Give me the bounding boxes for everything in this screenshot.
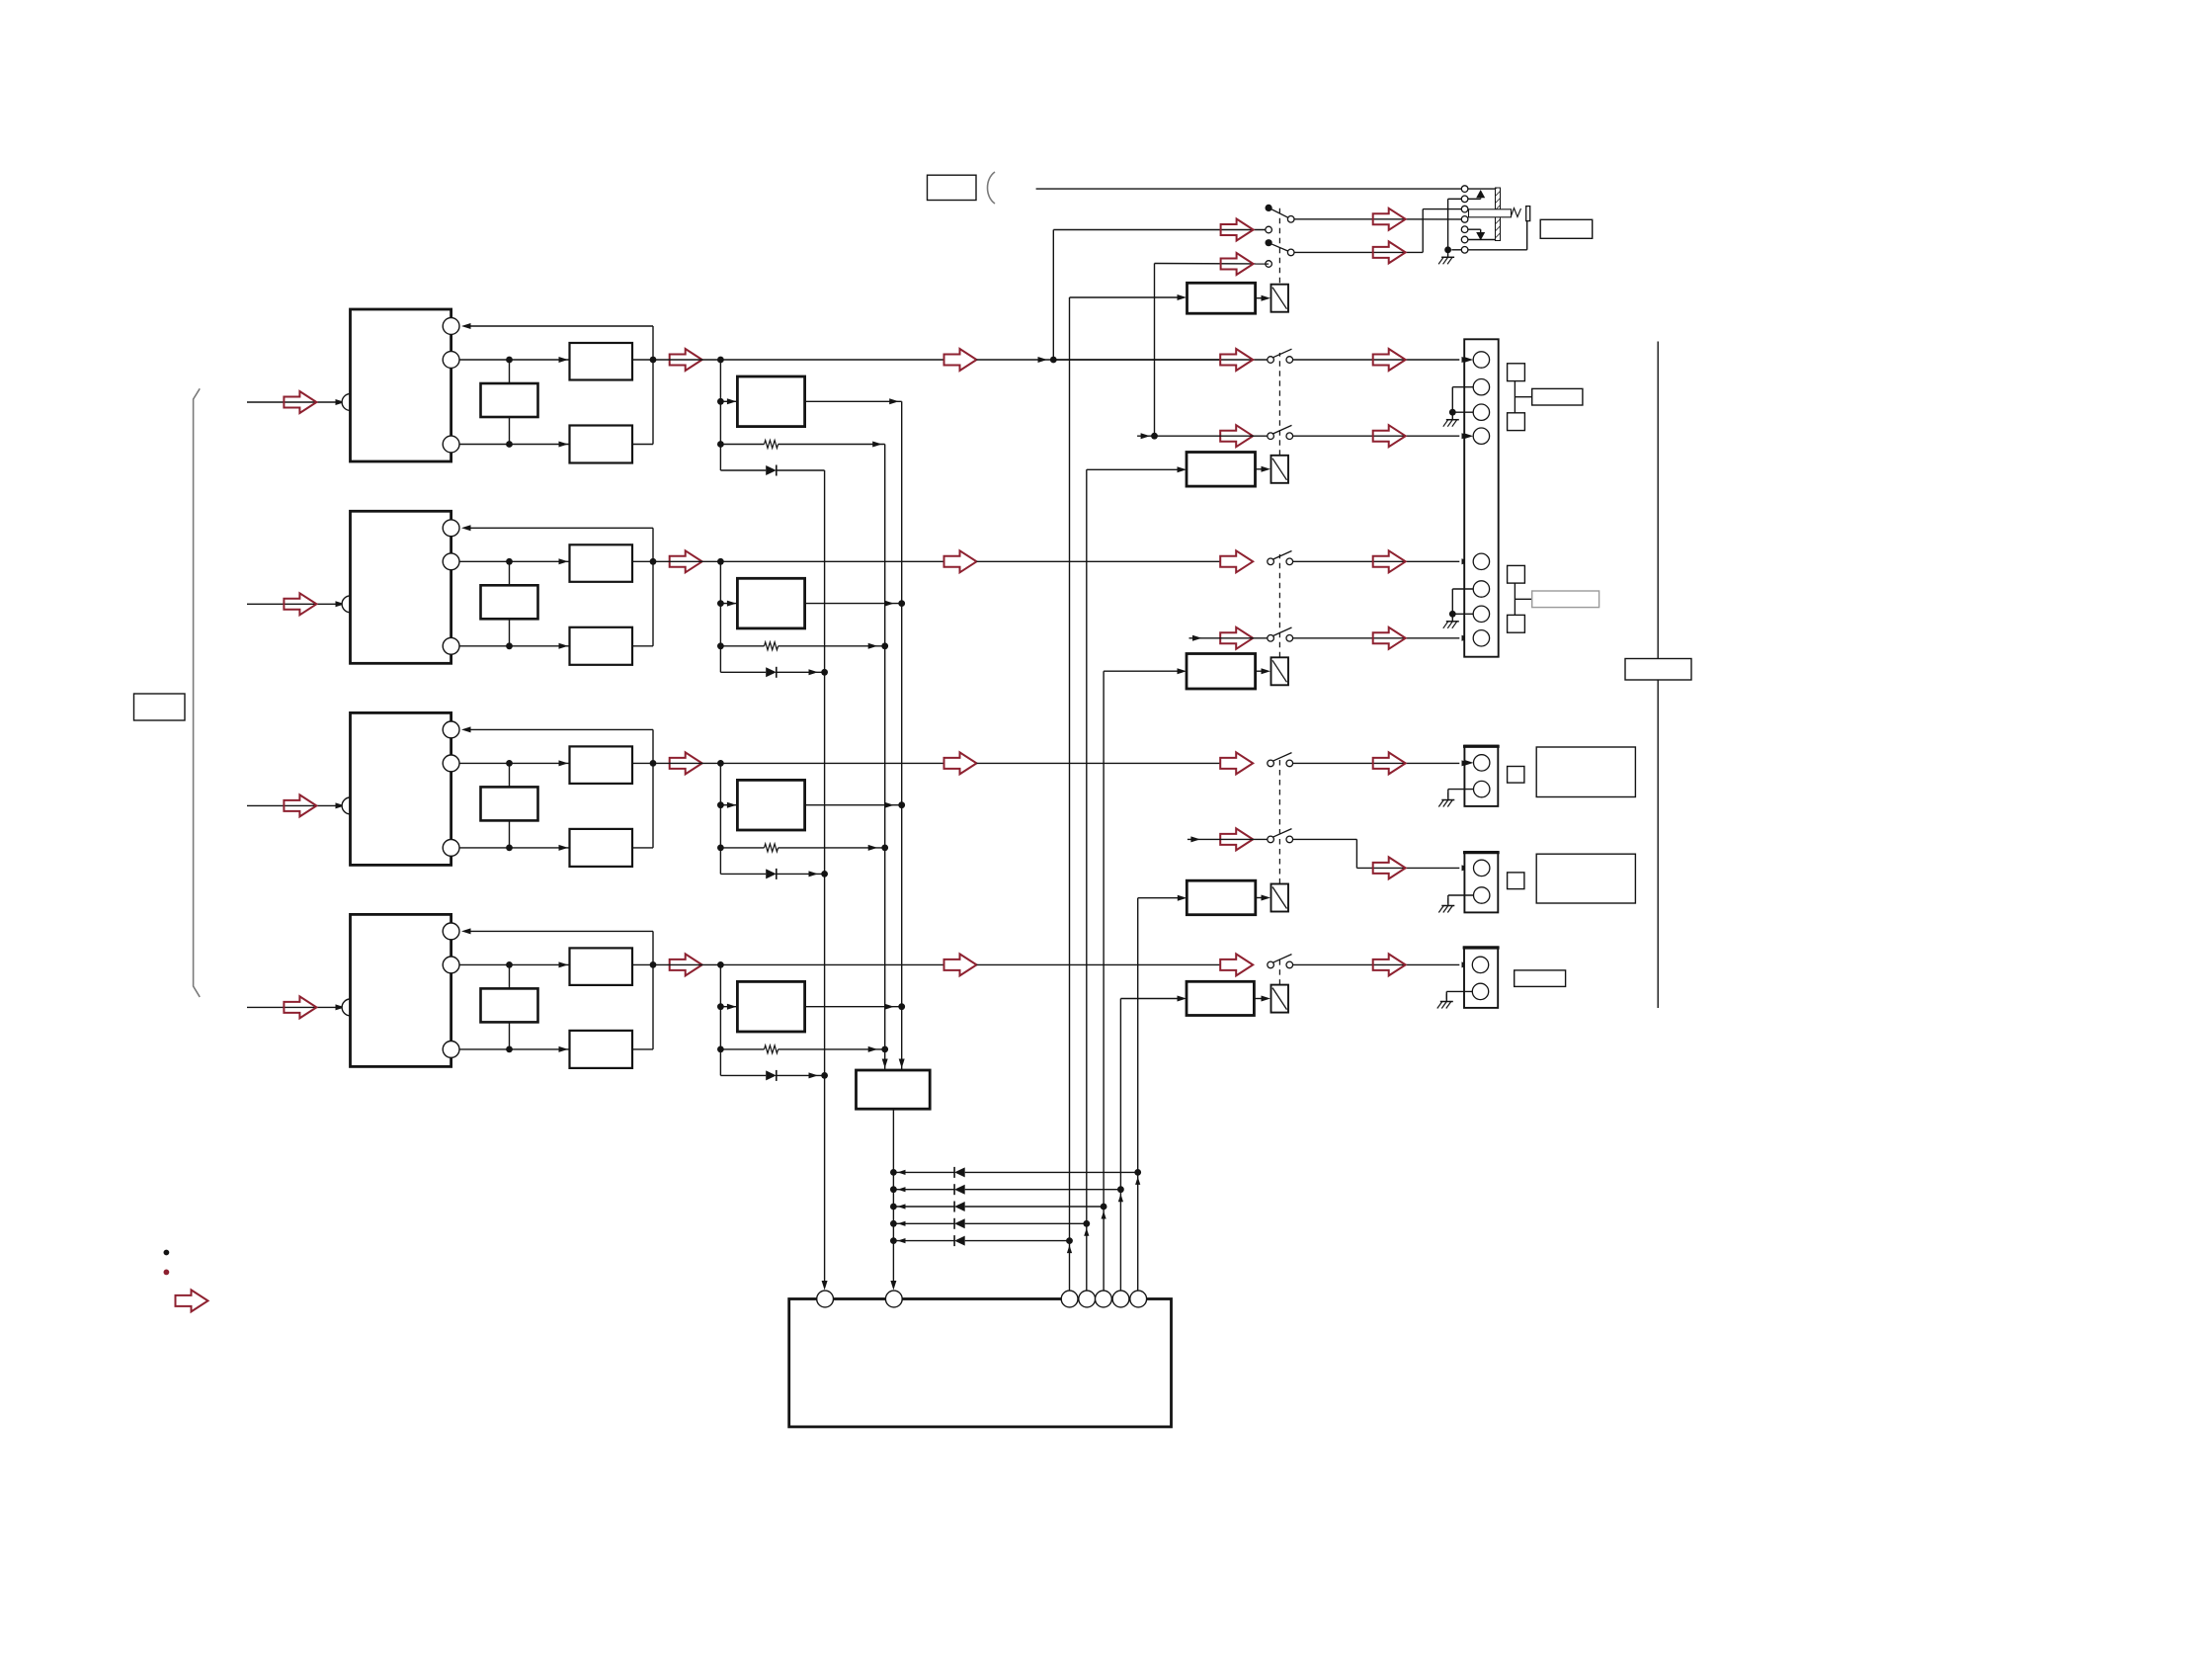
ground CN1a [1451,412,1453,420]
terminal circle CN2-1 [1474,755,1490,771]
wire ch1 long [977,359,1221,361]
connector CN1 body [1464,339,1499,656]
wire ch2 midbox feed [720,603,737,605]
wire ch3 midbox feed [720,804,737,806]
dashed RY2 [1278,353,1280,456]
pot wiper [1469,209,1512,217]
relay RY1 driver [1188,283,1256,313]
wire rec out R feed [1155,263,1270,266]
relay RY2 coil [1271,456,1289,483]
box label motor [1540,219,1593,238]
terminal circle CN2-2 [1474,781,1490,796]
arrow rec out L [1221,219,1254,241]
wire row ch1 switch [1053,359,1268,361]
dashed RY3 [1278,554,1280,657]
terminal circle ch4 aux [443,1042,459,1058]
arrow ch2 out [670,550,702,572]
wire ch2 midbox out [805,603,902,605]
box F2b [570,627,633,665]
diode D2 [720,671,766,673]
wire input IN3 [247,804,343,806]
wire ch1 G link [509,360,511,383]
wire feed V1 [1069,297,1071,1291]
wire ch4 midbox out [805,1006,902,1008]
arrow input IN4 [284,996,316,1018]
diode D1 [720,469,766,471]
dashed RY5 [1278,958,1280,985]
wire ch4 to mid [653,963,944,965]
terminal circle CN4-1 [1472,957,1488,972]
amp block A3 [351,712,451,865]
terminal circle ch1 aux [443,436,459,453]
box F1b [570,426,633,463]
ground pot [1447,250,1449,257]
switch S3 [1293,359,1460,361]
connector CN4 body [1464,947,1498,1008]
relay RY4 driver [1187,880,1256,915]
terminal circle ch2 out [443,553,459,570]
arrow ch2 mid [944,550,977,572]
wire ch3 main [459,762,570,764]
plug square C [1508,767,1524,784]
resistor R1 [720,444,764,446]
box G2 [481,585,538,619]
terminal circle input ch3 [342,797,359,814]
wire output bus right [1657,342,1659,1009]
wire CN3 gnd [1448,894,1474,896]
box M3 [737,780,804,830]
ground CN4 [1445,994,1447,1002]
legend arrow [176,1290,208,1311]
wire ch1 tap up [1052,230,1054,361]
wire ch1 drop [719,360,721,470]
switch S5 [1293,560,1460,562]
amp block A2 [351,511,451,663]
arrow S1 out [1373,209,1406,230]
wire pin2 gnd [1448,198,1462,200]
wire ch1 aux [459,444,570,446]
box F4b [570,1031,633,1068]
arrow ch1 out [670,349,702,371]
arrow ch1 mid [944,349,977,371]
ground CN3 [1447,898,1449,906]
wire input IN4 [247,1006,343,1008]
wire ch4 aux [459,1048,570,1050]
diode D3 [720,873,766,875]
hatched pot track [1496,188,1501,241]
wire ch1 aux out [632,444,653,446]
legend dot red [164,1270,170,1276]
wire ch2 aux [459,645,570,647]
arrow input IN2 [284,593,316,615]
terminal circle ch4 out [443,957,459,973]
terminal circle sysR1 [1061,1291,1078,1307]
wire ch3 aux out [632,847,653,849]
switch S4 row 1B [1293,435,1460,437]
arrow ch3 mid [944,752,977,774]
terminal circle ch1 out [443,352,459,369]
terminal circle ch1 fb [443,318,459,335]
relay RY3 driver [1187,654,1256,690]
wire ch1 to mid [653,359,944,361]
dashed RY4 [1278,756,1280,884]
plug square A2 [1508,413,1525,431]
wire S1 out [1294,218,1461,220]
wire ch1 box out [632,359,653,361]
wire CN1 in4 [1464,433,1474,439]
switch S1 [1266,205,1272,211]
terminal circle CN1-1 [1473,352,1489,368]
wire ch3 G link [509,763,511,787]
switch S2 [1266,239,1272,246]
wire ch2 G link [509,561,511,585]
box label B [1532,591,1599,608]
wire ch3 feedback [652,729,654,763]
wire plug link A [1514,381,1516,413]
wire plug link B [1514,583,1516,615]
box M2 [737,578,804,628]
terminal circle ch3 fb [443,721,459,738]
bracket left [194,388,201,997]
box G4 [481,988,538,1022]
wire bus A vertical [884,445,886,1071]
terminal circle CN1-6 [1473,581,1489,597]
terminal circle input ch2 [342,596,359,613]
connector CN2 body [1464,746,1498,806]
box M1 [737,376,804,427]
terminal circle CN1-3 [1473,404,1489,420]
box F4a [570,948,633,985]
wire ch3 midbox out [805,804,902,806]
wire delay out [892,1109,894,1284]
wire ch2 long [977,560,1221,562]
wire ch1 midbox feed [720,400,737,402]
wire ch4 box out [632,963,653,965]
box label C [1536,747,1635,797]
terminal circle sysR5 [1130,1291,1147,1307]
terminal circle CN1-8 [1473,630,1489,646]
terminal circle CN1-4 [1473,428,1489,444]
wire RY3 feed [1104,670,1182,672]
box G3 [481,787,538,820]
triangle up [1476,190,1485,198]
wire ch4 main [459,963,570,965]
wire ch2 feedback [652,528,654,561]
box F2a [570,544,633,582]
wire pin7 motor [1468,249,1527,251]
legend dot black [164,1250,170,1256]
switch S9 [1293,963,1460,965]
wire bus C vertical [824,470,826,1284]
plug square D [1508,873,1524,889]
dashed RY1 [1278,205,1280,283]
wire ch3 box out [632,762,653,764]
box label A [1532,388,1583,405]
terminal circle sys1 [817,1291,834,1307]
wire ch3 aux [459,847,570,849]
terminal circle sysR2 [1079,1291,1096,1307]
wire CN4 gnd [1446,990,1472,992]
terminal circle input ch4 [342,999,359,1016]
wire S2 out [1294,251,1423,253]
terminal circle sys2 [885,1291,902,1307]
terminal circle ch3 aux [443,840,459,857]
box label right bus [1625,659,1691,681]
wire RY2 feed [1087,468,1182,470]
resistor R4 [720,1048,764,1050]
diode DM3 [890,1204,897,1210]
switch S8 row 3B [1293,838,1357,840]
wire ch1 main [459,359,570,361]
amp block A1 [351,309,451,461]
terminal circle ch3 out [443,755,459,772]
wire ch4 feedback [652,931,654,964]
wire CN2 gnd [1448,789,1474,791]
terminal circle CN4-2 [1472,983,1488,999]
wire ch2 box out [632,560,653,562]
wire ch2 to mid [653,560,944,562]
switch S6 row 2B [1293,637,1460,639]
box M4 [737,981,804,1032]
box F1a [570,343,633,380]
wire ch4 drop [719,964,721,1075]
box F3b [570,829,633,867]
terminal circle sysR3 [1096,1291,1112,1307]
connector pins pot [1461,186,1468,193]
wire CN1 gnd1 [1452,386,1473,388]
wire ch4 aux out [632,1048,653,1050]
arrow input IN3 [284,794,316,816]
switch S7 [1293,762,1460,764]
terminal circle CN1-2 [1473,379,1489,395]
wire feed V3 [1103,671,1105,1291]
wire CN1 gnd2 [1452,588,1473,590]
wire bus B vertical [901,401,903,1070]
arrow S2 out [1373,241,1406,263]
wire feed V5 [1119,999,1121,1292]
ground CN2 [1447,793,1449,800]
plug square A1 [1508,364,1525,381]
box G1 [481,383,538,417]
connector CN3 body [1464,852,1498,912]
wire ch4 long [977,963,1221,965]
diode DM5 [890,1237,897,1244]
wire input IN2 [247,603,343,605]
wire ch1 feedback [652,326,654,360]
wire CN1 in1 [1464,357,1474,363]
amp block A4 [351,914,451,1066]
relay RY1 coil [1271,285,1289,312]
relay RY5 coil [1271,985,1289,1013]
relay RY5 driver [1187,981,1254,1015]
switch S2 contact [1266,261,1272,268]
box label D [1536,854,1635,903]
diode DM1 [890,1169,897,1176]
wire ch2 aux out [632,645,653,647]
terminal circle CN3-1 [1474,860,1490,876]
terminal circle CN1-7 [1473,606,1489,622]
wire ch3 to mid [653,762,944,764]
terminal circle input ch1 [342,394,359,411]
relay RY4 coil [1271,884,1289,912]
wire ch4 midbox feed [720,1006,737,1008]
wire RY4 feed [1138,897,1182,899]
block system control U10 [789,1299,1172,1427]
arrow ch4 out [670,954,702,975]
wire ch2 drop [719,561,721,672]
wire feed V2 [1086,469,1088,1291]
arrow ch3 out [670,752,702,774]
box delay [857,1070,931,1109]
relay RY3 coil [1271,657,1289,685]
relay RY2 driver [1187,453,1256,487]
wire ch3 drop [719,763,721,874]
wire row A [1036,188,1462,190]
diode DM4 [890,1220,897,1227]
bracket paren [988,172,996,204]
switch S1 contact [1266,226,1272,233]
diode D4 [720,1074,766,1076]
wire feed V4 [1137,898,1139,1292]
resistor R2 [720,645,764,647]
wire RY1 feed [1070,296,1183,298]
box label top [928,175,977,200]
box label E [1515,970,1566,987]
wire ch4 G link [509,964,511,988]
terminal circle CN1-5 [1473,553,1489,569]
terminal circle ch2 fb [443,520,459,537]
plug square B1 [1508,565,1525,583]
wire pin6 track [1468,239,1496,241]
wire pin1 track [1468,188,1496,190]
terminal circle sysR4 [1112,1291,1129,1307]
motor link [1526,207,1530,221]
terminal circle CN3-2 [1474,887,1490,903]
wire ch2 main [459,560,570,562]
arrow input IN1 [284,391,316,413]
plug square B2 [1508,615,1525,632]
resistor R3 [720,847,764,849]
wire input IN1 [247,401,343,403]
wire ch1 midbox out [805,400,902,402]
box label left [134,694,186,720]
ground CN1b [1451,614,1453,622]
diode DM2 [890,1186,897,1193]
wire RY5 feed [1120,998,1182,1000]
pot flex [1512,209,1521,217]
wire ch3 long [977,762,1221,764]
terminal circle ch2 aux [443,637,459,654]
arrow rec out R [1221,253,1254,275]
triangle down [1476,232,1485,240]
terminal circle ch4 fb [443,923,459,940]
arrow ch4 mid [944,954,977,975]
box F3a [570,746,633,784]
